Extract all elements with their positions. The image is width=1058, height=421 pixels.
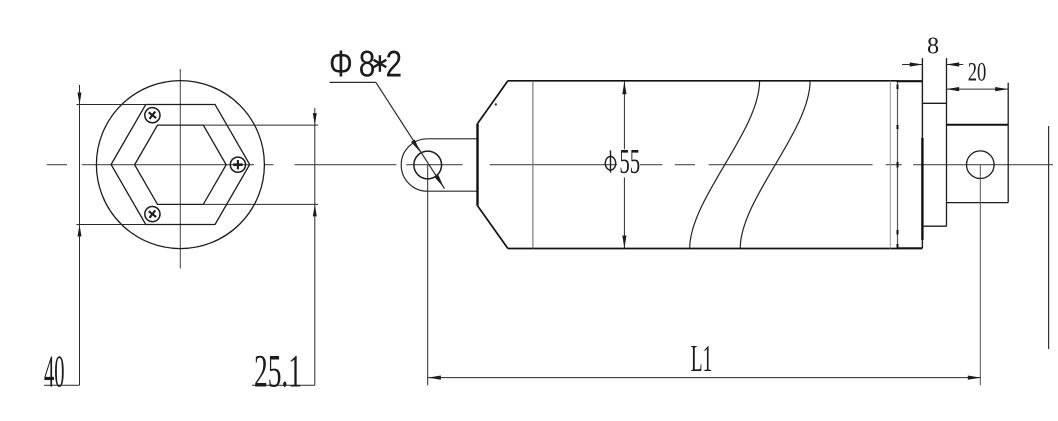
leader diagonal bbox=[376, 82, 445, 188]
screw right bbox=[230, 157, 245, 172]
outer hexagon bbox=[111, 105, 250, 225]
arrow 25.1 bottom bbox=[313, 204, 317, 216]
cylinder bottom line bbox=[508, 248, 898, 250]
flange right edge thick segment bbox=[921, 138, 923, 240]
label star bbox=[374, 55, 387, 72]
svg-text:2: 2 bbox=[386, 43, 403, 85]
clevis hole bbox=[414, 151, 442, 179]
block right edge + ext 20 bbox=[1007, 83, 1009, 203]
svg-text:55: 55 bbox=[619, 144, 640, 182]
cap joint line bbox=[532, 81, 534, 249]
disc right edge + ext 8 bbox=[946, 58, 948, 226]
leader arrow upper bbox=[411, 140, 420, 152]
disc bottom edge bbox=[922, 225, 946, 227]
dim line 25.1 bbox=[314, 108, 316, 385]
screw bottom-left bbox=[142, 203, 163, 224]
dim 8 left tail bbox=[902, 64, 923, 66]
frame line at right edge bbox=[1048, 126, 1050, 349]
clevis rod stadium bbox=[401, 139, 477, 191]
arrow phi55 top bbox=[622, 81, 626, 94]
block hole center extension (L1 right) bbox=[979, 165, 981, 386]
arrow phi55 bottom bbox=[622, 236, 626, 249]
flange bottom edge bbox=[897, 247, 923, 249]
dim 8 arrow left bbox=[910, 62, 923, 66]
S-curve 1 bbox=[690, 81, 760, 249]
dim 20 line bbox=[946, 88, 1008, 90]
bell front vertical edge bbox=[476, 124, 478, 206]
dim L1 arrow right bbox=[968, 376, 981, 380]
extension line hexagon bottom to dim 40 bbox=[77, 224, 146, 226]
leader arrow lower bbox=[435, 175, 444, 187]
clevis hole center extension line (L1 left) bbox=[427, 165, 429, 385]
bell top slant bbox=[478, 81, 508, 124]
leader underline bbox=[330, 81, 376, 83]
block bottom edge bbox=[947, 202, 1009, 204]
dim phi55 line bottom bbox=[623, 177, 625, 248]
dim L1 line bbox=[428, 377, 981, 379]
stray dot bbox=[495, 103, 497, 105]
main horizontal axis centerline bbox=[47, 164, 1053, 166]
label PHI 8*2 bbox=[329, 43, 402, 85]
arrow 40 top bbox=[78, 93, 82, 105]
label phi55 bbox=[605, 144, 640, 182]
cylinder end seam (gray) bbox=[889, 81, 891, 249]
dim 20 arrow left bbox=[946, 87, 959, 91]
end-view outer circle bbox=[96, 81, 264, 249]
svg-text:40: 40 bbox=[44, 345, 65, 397]
extension line inner hexagon bottom to dim 25.1 bbox=[203, 203, 318, 205]
svg-text:8: 8 bbox=[927, 33, 939, 60]
arrow 40 bottom bbox=[78, 225, 82, 237]
svg-text:L1: L1 bbox=[691, 337, 713, 380]
cylinder end edge bbox=[897, 81, 899, 249]
svg-text:Φ 8: Φ 8 bbox=[329, 43, 375, 85]
cylinder end edge dark ticks bbox=[897, 85, 899, 249]
svg-text:20: 20 bbox=[968, 57, 987, 86]
extension line hexagon top to dim 40 bbox=[77, 104, 146, 106]
block top edge bbox=[947, 124, 1009, 126]
block hole bbox=[967, 151, 995, 179]
bell bottom slant bbox=[478, 206, 508, 249]
S-curve 2 bbox=[740, 81, 810, 249]
inner hexagon bbox=[135, 125, 227, 204]
flange right edge + ext 8 bbox=[921, 58, 923, 248]
label 40 underline bbox=[44, 384, 80, 386]
flange top edge bbox=[897, 80, 923, 82]
label phi symbol bbox=[605, 157, 615, 171]
screw top-left bbox=[142, 105, 163, 126]
svg-text:25.1: 25.1 bbox=[254, 346, 302, 397]
extension line inner hexagon top to dim 25.1 bbox=[203, 124, 318, 126]
dim phi55 line top bbox=[623, 81, 625, 149]
label 25.1 underline bbox=[252, 384, 315, 386]
arrow 25.1 top bbox=[313, 113, 317, 125]
dim 20 arrow right bbox=[995, 87, 1008, 91]
dim 8 right tail bbox=[946, 64, 963, 66]
cylinder top line bbox=[508, 80, 898, 82]
dim 8 arrow right bbox=[946, 62, 959, 66]
left view vertical centerline bbox=[179, 69, 181, 269]
dim line 40 bbox=[79, 85, 81, 385]
dim L1 arrow left bbox=[428, 376, 441, 380]
disc top edge bbox=[922, 102, 946, 104]
